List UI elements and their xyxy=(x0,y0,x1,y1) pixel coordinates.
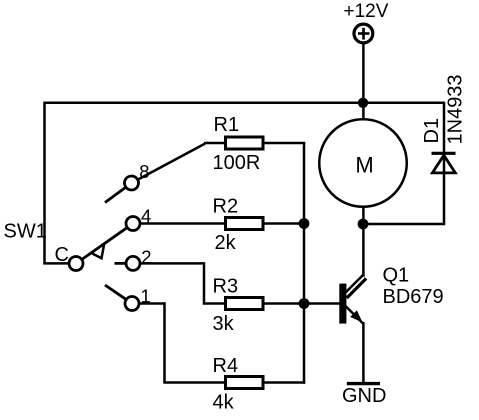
wire: stub to switch common C xyxy=(43,262,76,265)
wire: +12V drop to top bus xyxy=(362,44,365,103)
contact 8 stub xyxy=(105,183,132,203)
right resistor bus vertical xyxy=(303,142,306,384)
wire: R4 left lead xyxy=(163,381,225,384)
resistor R1 100R xyxy=(132,137,306,183)
wire: top bus from left corner to diode branch xyxy=(45,102,445,105)
svg-text:M: M xyxy=(355,153,373,178)
wire: R3 right lead xyxy=(263,302,305,305)
wire: R4 right lead xyxy=(263,381,305,384)
resistor R2 2k xyxy=(133,218,305,230)
wire: diagonal from contact 8 xyxy=(132,144,206,184)
svg-text:D1: D1 xyxy=(421,118,443,144)
emitter arrow xyxy=(350,310,362,322)
switch SW1 rotary xyxy=(69,176,140,311)
wire: left vertical bus down to switch common xyxy=(43,102,46,264)
wire: bend down xyxy=(203,262,206,303)
base bar xyxy=(339,284,346,324)
svg-text:R4: R4 xyxy=(213,355,239,377)
svg-text:3k: 3k xyxy=(213,313,235,335)
contact 1 stub xyxy=(105,285,132,304)
wiper arm C to 4 xyxy=(76,224,133,264)
motor M xyxy=(319,119,407,207)
transistor Q1 BD679 xyxy=(304,277,365,324)
ground xyxy=(347,382,380,385)
junction: R2 / bus xyxy=(299,218,310,229)
svg-text:R2: R2 xyxy=(213,196,239,218)
contact 2 stub xyxy=(115,262,134,265)
wire: diode branch vertical (through diode) xyxy=(443,102,446,224)
svg-text:R1: R1 xyxy=(214,114,240,136)
junction: R3 / bus / base xyxy=(299,298,310,309)
svg-text:1N4933: 1N4933 xyxy=(445,74,467,144)
wiper arrow head xyxy=(91,244,104,258)
svg-text:2: 2 xyxy=(141,247,151,268)
svg-text:Q1: Q1 xyxy=(383,265,410,287)
svg-text:SW1: SW1 xyxy=(4,221,47,243)
wire: emitter down to ground xyxy=(362,322,365,384)
svg-text:BD679: BD679 xyxy=(383,286,444,308)
collector double stroke xyxy=(345,277,364,296)
wire: collector node to diode bottom xyxy=(362,223,445,226)
contact 4 terminal xyxy=(126,217,140,231)
wire: from contact 2 horizontal xyxy=(133,262,204,265)
svg-text:8: 8 xyxy=(139,161,149,182)
wire: top bus to motor top xyxy=(362,103,365,120)
common C terminal xyxy=(69,257,83,271)
wire: R2 right lead xyxy=(263,222,305,225)
wire: R1 right lead xyxy=(263,142,305,145)
wire: from contact 1 horizontal xyxy=(132,302,165,305)
svg-text:C: C xyxy=(55,244,69,266)
contact 1 terminal xyxy=(125,297,139,311)
wire: R3 left lead xyxy=(203,302,225,305)
base wire from R bus xyxy=(304,302,340,305)
svg-text:GND: GND xyxy=(342,385,386,407)
svg-text:100R: 100R xyxy=(213,152,261,174)
contact 2 terminal xyxy=(126,256,140,270)
diode D1 1N4933 xyxy=(432,153,456,173)
junction: motor bottom / collector / diode xyxy=(358,219,369,230)
wire: bend down xyxy=(163,302,166,382)
resistor R4 4k xyxy=(132,302,305,388)
svg-text:+12V: +12V xyxy=(344,1,389,22)
junction: top bus / +12V xyxy=(358,98,368,108)
svg-text:R3: R3 xyxy=(213,276,239,298)
emitter line xyxy=(345,306,364,325)
wire: motor bottom to collector node xyxy=(362,206,365,279)
power flag +12V xyxy=(354,24,373,43)
resistor R3 3k xyxy=(133,262,305,309)
wire: R1 left lead xyxy=(204,142,225,145)
svg-text:1: 1 xyxy=(141,286,151,307)
svg-text:4: 4 xyxy=(141,206,151,227)
wire: R2 left lead from contact 4 xyxy=(133,222,225,225)
svg-text:2k: 2k xyxy=(215,232,237,254)
svg-text:4k: 4k xyxy=(213,392,235,414)
contact 8 terminal xyxy=(125,176,139,190)
